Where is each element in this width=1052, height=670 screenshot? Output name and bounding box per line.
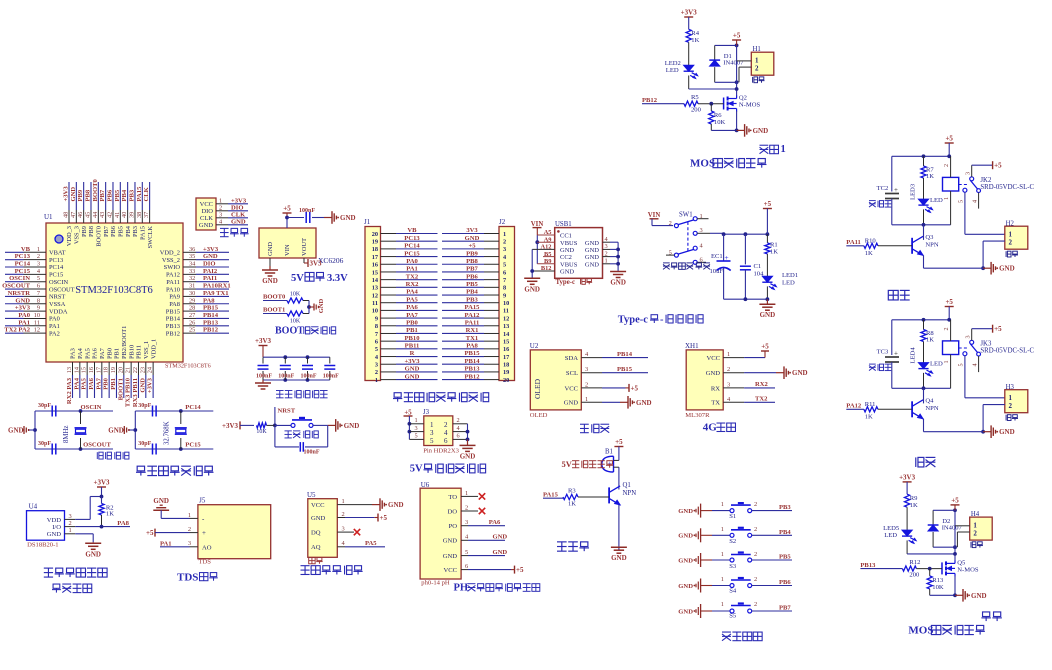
connector P1 download port: [196, 198, 248, 230]
svg-text:7: 7: [37, 290, 40, 297]
svg-text:+3V3: +3V3: [63, 186, 70, 202]
svg-text:R: R: [410, 350, 415, 357]
J2 pin 2 GND: [442, 235, 506, 246]
svg-text:NRST: NRST: [278, 408, 296, 415]
svg-text:3.3V: 3.3V: [327, 273, 348, 284]
svg-text:4: 4: [972, 200, 979, 203]
svg-text:N-MOS: N-MOS: [957, 566, 979, 573]
LED LED5: [883, 525, 955, 554]
svg-text:1K: 1K: [568, 501, 576, 508]
caption jingzhen dianlu: [96, 452, 98, 459]
svg-text:PO: PO: [449, 523, 458, 530]
svg-text:PB12: PB12: [203, 327, 219, 334]
wire U5 pin4 to PA5: [337, 540, 385, 547]
ground GND J3: [460, 439, 476, 460]
svg-text:20: 20: [117, 367, 124, 373]
wire pump source to gnd: [711, 111, 738, 132]
svg-text:1: 1: [219, 198, 222, 205]
wire GND pin down: [269, 258, 271, 266]
svg-text:10: 10: [503, 300, 509, 307]
svg-text:3: 3: [430, 429, 434, 437]
svg-text:SWCLK: SWCLK: [147, 226, 154, 249]
svg-text:RX2 PA3: RX2 PA3: [66, 377, 73, 404]
svg-text:1K: 1K: [926, 173, 934, 180]
svg-text:PB3: PB3: [466, 296, 478, 303]
svg-text:PC15: PC15: [15, 268, 31, 275]
svg-text:16: 16: [372, 262, 378, 269]
svg-text:GND: GND: [999, 265, 1015, 273]
svg-text:VCC: VCC: [706, 355, 720, 362]
svg-text:9: 9: [37, 305, 40, 312]
J2 pin 4 PB9: [442, 250, 507, 261]
svg-text:Q2: Q2: [739, 95, 747, 102]
U1 top pin 43 PB7: [99, 182, 110, 237]
capacitor 30pF top right: [138, 403, 156, 417]
svg-text:JK2: JK2: [980, 177, 992, 184]
svg-text:+5: +5: [945, 298, 953, 306]
svg-text:+3V3: +3V3: [93, 479, 110, 487]
svg-text:23: 23: [139, 367, 146, 373]
svg-text:VSS_2: VSS_2: [162, 257, 180, 264]
svg-text:Type-c: Type-c: [556, 279, 576, 286]
svg-text:RX2: RX2: [406, 281, 420, 288]
resistor R14 10K BOOT0: [287, 292, 309, 304]
wire reset rail: [240, 424, 254, 426]
svg-text:PB0: PB0: [106, 348, 113, 359]
svg-text:PB11: PB11: [136, 345, 143, 359]
LED1 indicator: [762, 272, 798, 299]
U1 top pin 44 BOOT0: [92, 178, 103, 246]
relay JK3 coil: [943, 320, 959, 389]
capacitor 100nF filter 4: [323, 357, 339, 380]
wire +5 node to VIN: [285, 216, 289, 228]
caption 制冷: [915, 457, 917, 467]
U2 pin 3 SCL: [566, 366, 602, 377]
J2 pin 13 PA11: [442, 319, 509, 330]
ground GND 4G: [744, 366, 807, 379]
svg-text:15: 15: [81, 367, 88, 373]
U1 right pin 25 PB12: [166, 327, 229, 338]
svg-text:GND: GND: [560, 269, 574, 276]
J1 pin 11 PA5: [372, 296, 437, 307]
svg-text:2: 2: [444, 421, 448, 429]
svg-text:5: 5: [465, 549, 468, 556]
svg-text:40: 40: [121, 212, 128, 218]
svg-text:VDD_3: VDD_3: [66, 226, 73, 246]
U1 left pin 12 PA2: [4, 327, 59, 338]
svg-text:1: 1: [503, 231, 506, 238]
svg-text:VBUS: VBUS: [560, 261, 578, 268]
U2 pin 4 SDA: [565, 351, 602, 362]
svg-text:LED3: LED3: [910, 183, 917, 200]
svg-text:TX2 PA2: TX2 PA2: [4, 327, 30, 334]
svg-text:VDD: VDD: [47, 517, 62, 524]
J2 pin 3 +5: [442, 243, 506, 254]
wire H2 pin2 to gnd: [981, 241, 1005, 270]
display U2 OLED: [530, 342, 582, 419]
svg-text:PH: PH: [454, 583, 469, 594]
wire GND pin U4: [65, 527, 94, 542]
wire SW1 pin5 stub: [666, 254, 674, 256]
svg-text:PB5: PB5: [118, 226, 125, 237]
svg-text:GND: GND: [585, 254, 599, 261]
J1 pin 7 PB1: [375, 327, 438, 338]
power +5 4G: [744, 343, 769, 358]
svg-text:1: 1: [585, 396, 588, 403]
caption xiazaikou: [220, 227, 229, 229]
J2 pin 8 PB5: [442, 281, 506, 292]
J2 pin 10 PB3: [442, 296, 509, 307]
svg-text:PC15: PC15: [185, 442, 201, 449]
svg-text:PB15: PB15: [203, 305, 219, 312]
svg-text:PC13: PC13: [49, 257, 63, 264]
svg-text:6: 6: [465, 563, 468, 570]
svg-text:S1: S1: [729, 513, 736, 520]
USB1 left pin B12 GND: [541, 265, 575, 275]
caption fuwei dianlu: [285, 430, 292, 432]
svg-text:PB9: PB9: [81, 226, 88, 237]
svg-text:PB4: PB4: [121, 189, 128, 201]
power +5 heat: [945, 135, 954, 157]
wire SCL to PB15: [602, 366, 648, 373]
svg-text:12: 12: [503, 315, 509, 322]
LED LED4: [910, 347, 944, 389]
crystal circuit bottom wire OSCOUT: [35, 442, 113, 451]
wire U5 pin1 to GND: [337, 498, 403, 511]
power +3V3 temp: [93, 479, 110, 497]
caption 搅拌: [983, 612, 990, 617]
wire to reset key: [275, 424, 291, 426]
svg-text:1: 1: [1009, 394, 1013, 402]
J2 pin 14 RX1: [442, 327, 510, 338]
svg-text:2: 2: [973, 529, 977, 537]
ground GND pump: [737, 124, 769, 137]
svg-text:LED: LED: [666, 67, 679, 74]
U1 left pin 1 VBAT: [5, 246, 66, 257]
key S2: [678, 526, 792, 545]
crystal circuit Y1 8MHz top wire OSCIN: [35, 404, 113, 413]
svg-text:GND: GND: [636, 399, 652, 407]
svg-text:OSCIN: OSCIN: [49, 279, 69, 286]
J1 pin 13 RX2: [372, 281, 438, 292]
U1 left pin 6 OSCOUT: [2, 283, 75, 294]
svg-text:VOUT: VOUT: [301, 238, 308, 256]
svg-text:1: 1: [727, 351, 730, 358]
svg-text:35: 35: [189, 253, 195, 260]
svg-text:GND: GND: [85, 550, 101, 558]
power +5 relay contact heat: [972, 161, 1002, 177]
svg-text:PC13: PC13: [15, 253, 31, 260]
svg-text:1: 1: [342, 498, 345, 505]
crystal circuit Y2 32.768K top wire PC14: [135, 404, 213, 413]
svg-text:VDD_1: VDD_1: [150, 339, 157, 359]
svg-text:4: 4: [972, 363, 979, 366]
svg-text:3: 3: [69, 513, 72, 520]
svg-text:20: 20: [503, 377, 509, 384]
svg-text:+5: +5: [994, 325, 1002, 333]
power 3V3 label: [304, 259, 322, 268]
J2 pin 12 PA12: [442, 312, 509, 323]
svg-text:GND: GND: [610, 279, 626, 287]
svg-text:3: 3: [188, 540, 191, 547]
svg-text:1: 1: [781, 144, 786, 155]
net label PA11 and resistor R10 1K: [846, 238, 912, 258]
J2 pin 18 PB14: [442, 358, 509, 369]
net label BOOT0: [263, 294, 287, 301]
svg-text:+5: +5: [146, 529, 154, 537]
svg-text:2: 2: [605, 250, 608, 257]
J2 pin 7 PB6: [442, 273, 506, 284]
ground GND typec right: [610, 272, 626, 287]
svg-text:PA12: PA12: [846, 403, 862, 410]
svg-text:NPN: NPN: [623, 490, 637, 497]
svg-text:B1: B1: [605, 449, 613, 456]
ground GND typec left: [524, 278, 540, 293]
svg-text:15: 15: [372, 269, 378, 276]
svg-text:PB10: PB10: [128, 345, 135, 359]
USB1 right pin GND 2: [585, 250, 618, 261]
svg-text:1K: 1K: [865, 250, 873, 257]
key S6 reset button: [291, 418, 328, 428]
wire TDS pin1: [161, 510, 198, 519]
svg-text:PB13: PB13: [203, 319, 219, 326]
power +5 stir: [951, 496, 960, 510]
svg-text:PB11: PB11: [405, 343, 420, 350]
svg-text:R6: R6: [714, 112, 722, 119]
svg-text:PA15: PA15: [543, 491, 559, 498]
XH1 pin 4 TX: [711, 396, 744, 407]
U2 pin 2 VCC: [564, 381, 602, 392]
svg-text:LED: LED: [782, 280, 795, 287]
svg-text:DQ: DQ: [311, 530, 321, 537]
svg-text:100nF: 100nF: [256, 374, 272, 380]
svg-text:+3V3: +3V3: [231, 198, 247, 205]
svg-text:+5: +5: [951, 496, 959, 504]
svg-text:1: 1: [465, 490, 468, 497]
svg-text:J2: J2: [499, 218, 506, 226]
wire U5 pin3 no connect: [337, 526, 360, 536]
svg-text:NRSTR: NRSTR: [8, 290, 31, 297]
svg-text:2: 2: [375, 369, 378, 376]
svg-text:10uF: 10uF: [710, 268, 724, 275]
svg-text:XC6206: XC6206: [318, 256, 344, 265]
svg-text:+5: +5: [283, 205, 291, 213]
svg-text:+3V3: +3V3: [404, 358, 420, 365]
svg-text:1: 1: [721, 501, 724, 508]
svg-text:LED2: LED2: [665, 60, 681, 67]
module J5 TDS: [198, 497, 271, 566]
svg-text:PA11: PA11: [846, 239, 861, 246]
svg-text:2: 2: [943, 327, 950, 330]
wire cool bottom rail: [892, 386, 951, 390]
svg-text:GND: GND: [443, 538, 458, 545]
svg-text:GND: GND: [267, 242, 274, 256]
net label PA1 TDS pin3: [160, 540, 198, 547]
svg-text:3: 3: [375, 362, 378, 369]
svg-text:100nF: 100nF: [300, 374, 316, 380]
svg-text:2: 2: [465, 504, 468, 511]
svg-text:17: 17: [372, 254, 378, 261]
U1 bottom pin 13 PA3: [66, 348, 77, 404]
svg-text:10: 10: [34, 312, 40, 319]
svg-text:TX1: TX1: [466, 335, 478, 342]
ground GND heat: [983, 262, 1015, 275]
svg-text:20: 20: [372, 231, 378, 238]
svg-text:10K: 10K: [290, 319, 301, 325]
svg-text:NPN: NPN: [925, 241, 938, 248]
svg-text:PA1: PA1: [18, 319, 30, 326]
svg-text:1: 1: [69, 527, 72, 534]
J2 pin 16 PA8: [442, 343, 509, 354]
svg-text:GND: GND: [493, 534, 508, 541]
svg-text:13: 13: [503, 323, 509, 330]
svg-text:SW1: SW1: [679, 211, 693, 218]
J1 pin 5 PB11: [375, 343, 438, 354]
power +5 relay contact cool: [972, 325, 1002, 341]
svg-text:3: 3: [727, 381, 730, 388]
svg-text:GND: GND: [8, 427, 24, 435]
svg-text:BOOT0: BOOT0: [96, 226, 103, 247]
LED LED3: [910, 183, 944, 225]
svg-text:2: 2: [69, 520, 72, 527]
svg-text:PB1: PB1: [406, 327, 418, 334]
svg-text:39: 39: [128, 212, 135, 218]
J2 pin 1 3V3: [442, 227, 506, 238]
svg-text:TC3: TC3: [877, 349, 889, 356]
svg-text:VBAT: VBAT: [49, 250, 66, 257]
U1 right pin 34 SWIO: [164, 261, 229, 272]
svg-text:GND: GND: [564, 400, 579, 407]
svg-text:PA5: PA5: [84, 348, 91, 359]
svg-text:1: 1: [430, 421, 434, 429]
U1 left pin 10 PA0: [5, 312, 60, 323]
svg-text:TDS: TDS: [199, 559, 212, 566]
svg-text:PA6: PA6: [88, 377, 95, 389]
svg-text:16: 16: [88, 367, 95, 373]
svg-text:+3V3: +3V3: [147, 377, 154, 393]
svg-text:5: 5: [430, 437, 434, 445]
svg-text:VSSA: VSSA: [49, 301, 66, 308]
wire H4 pin2: [957, 532, 969, 547]
svg-text:STM32F103C8T6: STM32F103C8T6: [75, 285, 153, 296]
svg-text:PB7: PB7: [103, 225, 110, 237]
svg-text:GND: GND: [493, 549, 508, 556]
svg-text:PA8: PA8: [117, 520, 129, 527]
svg-text:+: +: [894, 350, 898, 358]
XH1 pin 2 GND: [706, 366, 744, 377]
svg-text:44: 44: [92, 211, 99, 218]
crystal Y2 32.768K: [163, 411, 187, 449]
J2 pin 20 PB12: [442, 373, 509, 384]
svg-text:GND: GND: [678, 583, 693, 590]
svg-text:PA8: PA8: [203, 297, 215, 304]
wire stir diode rails: [933, 508, 957, 561]
wire U6 pin5 to GND: [461, 549, 507, 556]
relay JK2 contact: [958, 172, 1035, 209]
svg-text:PC14: PC14: [404, 243, 420, 250]
U1 top pin 46 PB9: [77, 182, 88, 237]
svg-text:PB8: PB8: [84, 189, 91, 201]
svg-text:+3V3: +3V3: [15, 305, 31, 312]
svg-text:OSCOUT: OSCOUT: [2, 283, 30, 290]
svg-text:3V3: 3V3: [310, 260, 323, 268]
U1 top pin 39 PB3: [128, 182, 139, 237]
svg-text:DS18B20-1: DS18B20-1: [27, 542, 59, 549]
resistor R8 1K: [921, 320, 934, 363]
svg-text:PA5: PA5: [81, 377, 88, 389]
transistor Q4 NPN: [912, 388, 983, 431]
svg-text:R3: R3: [568, 487, 576, 494]
svg-text:DIO: DIO: [201, 208, 213, 215]
U1 bottom pin 16 PA6: [88, 348, 99, 398]
caption danpianji yinjiao waiyin paizhen: [394, 393, 401, 397]
svg-text:U1: U1: [44, 213, 53, 221]
svg-text:PB4: PB4: [125, 225, 132, 237]
svg-text:1: 1: [721, 601, 724, 608]
svg-text:GND: GND: [340, 214, 356, 222]
svg-text:PA6: PA6: [489, 519, 501, 526]
svg-text:PA5: PA5: [406, 296, 418, 303]
svg-text:3: 3: [605, 243, 608, 250]
relay JK3 contact: [958, 335, 1035, 372]
svg-text:2: 2: [585, 381, 588, 388]
svg-text:200: 200: [691, 107, 702, 114]
LED LED2: [665, 60, 737, 89]
wire U6 pin1 no connect: [461, 490, 485, 500]
key S4: [678, 576, 792, 595]
svg-text:PB4: PB4: [466, 289, 478, 296]
svg-text:15: 15: [503, 338, 509, 345]
power +5 typec: [763, 200, 772, 234]
svg-text:R1: R1: [770, 242, 778, 249]
svg-text:S3: S3: [729, 563, 737, 570]
svg-text:3: 3: [465, 519, 468, 526]
svg-text:30: 30: [189, 290, 195, 297]
svg-text:12: 12: [372, 292, 378, 299]
svg-text:PB3: PB3: [779, 504, 791, 511]
ground GND stir: [955, 589, 987, 602]
svg-text:GND: GND: [753, 127, 769, 135]
ground GND at VIN cap: [324, 211, 356, 224]
svg-text:PAI2: PAI2: [203, 268, 218, 275]
svg-text:3: 3: [503, 246, 506, 253]
svg-text:GND: GND: [231, 219, 246, 226]
svg-text:SCL: SCL: [566, 370, 578, 377]
wire SW1 pin1 stub: [697, 218, 708, 220]
svg-text:+5: +5: [380, 514, 388, 522]
svg-text:PC14: PC14: [15, 261, 31, 268]
U1 top pin 41 PB5: [114, 182, 125, 237]
connector J2 pin header: [499, 218, 515, 381]
wire left rail crystal1: [33, 411, 37, 449]
U1 top pin 47 VSS_3: [70, 182, 81, 244]
svg-text:3: 3: [965, 335, 972, 338]
svg-text:R11: R11: [865, 401, 876, 408]
svg-text:6: 6: [375, 338, 378, 345]
ground GND filter: [255, 380, 271, 389]
svg-text:3: 3: [219, 212, 222, 219]
USB1 right pin GND 4: [585, 236, 618, 247]
svg-text:2: 2: [669, 220, 672, 227]
svg-text:2: 2: [754, 501, 757, 508]
U1 right pin 33 PA12: [166, 268, 229, 279]
transistor Q2 N-MOS: [724, 95, 761, 112]
svg-text:GND: GND: [108, 427, 124, 435]
capacitor 30pF bottom right: [138, 441, 156, 455]
svg-text:12: 12: [34, 327, 40, 334]
svg-text:31: 31: [189, 283, 195, 290]
svg-text:3: 3: [37, 261, 40, 268]
